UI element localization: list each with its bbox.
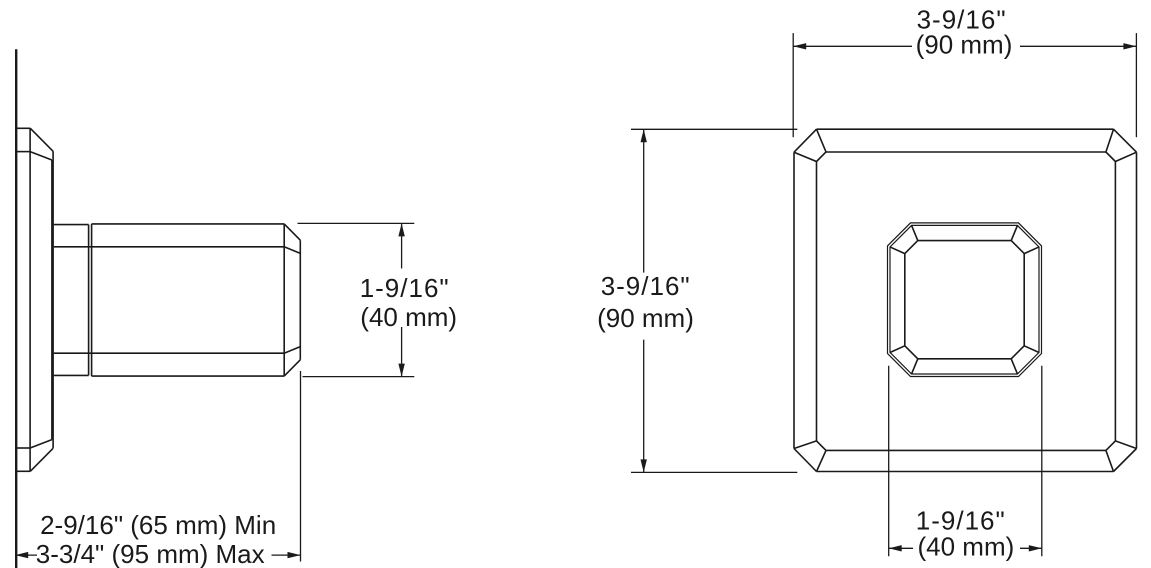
svg-text:(40 mm): (40 mm) bbox=[360, 302, 457, 332]
svg-text:(90 mm): (90 mm) bbox=[597, 303, 694, 333]
svg-text:3-3/4" (95 mm) Max: 3-3/4" (95 mm) Max bbox=[36, 539, 265, 568]
svg-text:3-9/16": 3-9/16" bbox=[601, 271, 691, 301]
svg-text:1-9/16": 1-9/16" bbox=[360, 273, 450, 303]
svg-text:2-9/16" (65 mm) Min: 2-9/16" (65 mm) Min bbox=[40, 510, 276, 540]
svg-text:(40 mm): (40 mm) bbox=[918, 531, 1015, 561]
svg-text:(90 mm): (90 mm) bbox=[916, 29, 1013, 59]
